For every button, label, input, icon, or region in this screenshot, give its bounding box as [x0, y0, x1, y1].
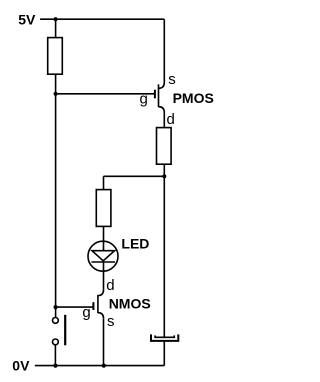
svg-text:LED: LED [121, 235, 149, 251]
junction dot drain node [162, 174, 166, 178]
wire left column [55, 94, 57, 307]
wire R3 to LED [103, 226, 105, 242]
wire PMOS source [163, 19, 165, 82]
svg-text:0V: 0V [12, 358, 30, 374]
transistor U2 NMOS [93, 290, 103, 318]
wire R1 bottom lead [55, 74, 57, 94]
junction dot NMOS source to 0V rail [102, 364, 106, 368]
wire PMOS gate [56, 93, 155, 95]
wire LED branch top [103, 176, 105, 189]
wire LED to NMOS drain [103, 262, 105, 290]
junction dot R1 top node [54, 17, 58, 21]
resistor R2 [157, 128, 172, 165]
svg-text:d: d [106, 277, 114, 294]
svg-text:g: g [140, 90, 148, 107]
svg-text:PMOS: PMOS [173, 90, 214, 106]
wire R2 to drain node [163, 164, 165, 176]
switch S1 push-to-make [53, 307, 66, 366]
wire R1 top lead [55, 19, 57, 37]
resistor R1 [48, 38, 63, 75]
svg-text:5V: 5V [18, 11, 36, 27]
wire right column to capacitor [163, 176, 165, 337]
svg-text:s: s [107, 313, 115, 330]
junction dot PMOS gate node [54, 92, 58, 96]
svg-text:s: s [168, 71, 176, 88]
svg-text:g: g [82, 304, 90, 321]
svg-text:NMOS: NMOS [109, 295, 151, 311]
resistor R3 [96, 190, 111, 227]
wire drain node to LED branch [104, 175, 165, 177]
LED D1 [88, 241, 118, 271]
wire NMOS gate [56, 306, 94, 308]
svg-text:d: d [167, 111, 175, 128]
junction dot switch to 0V rail [53, 364, 57, 368]
wire 0V rail [35, 365, 165, 367]
junction dot NMOS gate node [54, 305, 58, 309]
wire PMOS drain to R2 [163, 113, 165, 128]
transistor U1 PMOS [155, 83, 164, 113]
capacitor C1 [151, 334, 178, 365]
wire 5V rail [40, 18, 164, 20]
wire NMOS source [103, 318, 105, 365]
